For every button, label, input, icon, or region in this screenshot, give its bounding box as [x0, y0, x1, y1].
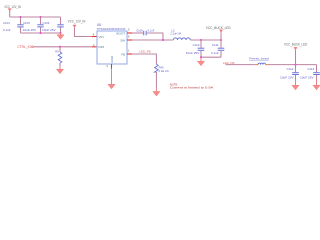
pin 4 stub VIN	[92, 36, 97, 38]
wire bottom bus	[21, 32, 61, 34]
svg-text:10uF 25V: 10uF 25V	[23, 28, 37, 32]
resistor R40 current sense	[155, 64, 170, 88]
svg-text:10uF 25V: 10uF 25V	[186, 51, 200, 55]
capacitor C110	[186, 40, 205, 57]
svg-text:SW: SW	[120, 38, 125, 42]
wire CTRL_IO to DIM	[33, 46, 92, 48]
svg-text:LED_FB: LED_FB	[139, 50, 151, 54]
pin 1 stub FB	[127, 53, 132, 55]
wire L2 to output node	[190, 39, 221, 41]
ground (left cap bank)	[60, 33, 62, 35]
junction dots top bus	[19, 16, 21, 18]
inductor L2 2.2uH 3A	[170, 29, 190, 40]
svg-text:C104: C104	[3, 21, 10, 25]
svg-text:0.1uF: 0.1uF	[148, 28, 155, 32]
junction SW/BOOT cap	[162, 39, 164, 41]
svg-text:VCC_12V_IN: VCC_12V_IN	[4, 5, 21, 9]
ground (R40)	[155, 89, 157, 92]
ground (IC)	[111, 69, 113, 85]
power flag VCC_BUCK_LED right	[294, 47, 297, 49]
junction output node C110	[200, 39, 202, 41]
IC U8 TPS92200D2DDCR buck LED driver	[97, 23, 128, 64]
svg-text:VCC_BUCK_LED: VCC_BUCK_LED	[284, 42, 308, 46]
svg-text:C111: C111	[212, 43, 219, 47]
power flag VCC_12V_IN at IC	[73, 25, 76, 27]
svg-text:C112: C112	[287, 67, 294, 71]
capacitor C112	[280, 65, 299, 80]
svg-text:C106: C106	[43, 21, 50, 25]
svg-text:C105: C105	[23, 21, 30, 25]
svg-text:10uF 25V: 10uF 25V	[280, 75, 294, 79]
ferrite bead FB	[249, 57, 269, 65]
svg-text:Current is limited to 0.9A: Current is limited to 0.9A	[170, 85, 214, 89]
power flag VCC_BUCK_LED output	[219, 30, 222, 32]
svg-text:C110: C110	[193, 43, 200, 47]
ground (R9)	[59, 68, 61, 70]
svg-text:2.2uH 3A: 2.2uH 3A	[170, 32, 181, 36]
ground (C112)	[295, 80, 297, 86]
svg-text:VCC_12V_IN: VCC_12V_IN	[68, 19, 86, 23]
capacitor C111	[211, 40, 224, 57]
capacitor C113	[300, 65, 320, 80]
wire FB to R40	[132, 54, 156, 64]
svg-text:VCC_BUCK_LED: VCC_BUCK_LED	[206, 26, 232, 30]
ground (C113)	[316, 80, 318, 86]
wire top bus	[10, 16, 61, 18]
pin 5 stub BOOT	[127, 32, 132, 34]
wire bead to right caps	[268, 64, 317, 66]
svg-text:C113: C113	[307, 67, 314, 71]
svg-text:GND: GND	[110, 55, 114, 63]
svg-text:0.1uF: 0.1uF	[211, 51, 219, 55]
wire SW	[132, 39, 173, 41]
svg-text:CTRL_IO: CTRL_IO	[17, 45, 31, 49]
wire flag to bus	[9, 11, 11, 17]
capacitor C106	[42, 17, 64, 33]
svg-text:10uF 25V: 10uF 25V	[42, 28, 56, 32]
wire flag to VIN pin	[75, 27, 93, 36]
svg-text:Ferrite_bead: Ferrite_bead	[249, 57, 269, 61]
pin 2 stub DIM	[92, 46, 97, 48]
pin 3 stub GND	[111, 64, 113, 69]
pin 6 stub SW	[127, 39, 132, 41]
capacitor C105	[23, 17, 44, 33]
junction right bus C112	[294, 64, 296, 66]
ground (output caps)	[200, 57, 202, 61]
wire cap bottoms	[201, 56, 221, 58]
svg-text:VIN: VIN	[98, 35, 103, 39]
wire LED_FB to ferrite bead	[226, 64, 256, 66]
junction CTRL/R9	[59, 46, 61, 48]
resistor R9 (DIM pulldown)	[55, 47, 62, 68]
svg-text:0.1E 1%: 0.1E 1%	[159, 69, 170, 73]
capacitor C104	[3, 17, 24, 33]
power flag VCC_12V_IN left	[8, 9, 11, 11]
svg-text:FB: FB	[121, 52, 125, 56]
svg-text:DIM: DIM	[98, 45, 104, 49]
svg-text:0.1uF: 0.1uF	[3, 28, 11, 32]
svg-text:C108: C108	[136, 28, 143, 32]
svg-text:BOOT: BOOT	[116, 31, 125, 35]
capacitor C108 (bootstrap)	[132, 28, 163, 40]
svg-text:10uF 25V: 10uF 25V	[300, 75, 314, 79]
junction bottom bus C105	[39, 32, 41, 34]
